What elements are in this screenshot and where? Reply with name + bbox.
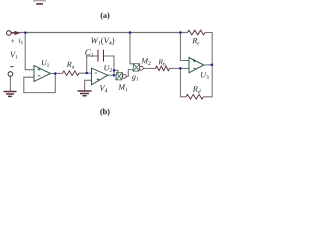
caption (b)	[100, 109, 109, 116]
label M1	[118, 84, 127, 91]
partial ground from figure (a) at top edge	[33, 0, 46, 2]
label U3	[201, 72, 209, 79]
label U1	[42, 60, 49, 67]
wire: M1 top input jog	[114, 70, 118, 72]
wire: lower terminal to ground	[9, 77, 11, 92]
label R_c	[192, 38, 199, 45]
multiplier M2	[133, 64, 140, 71]
label U2	[104, 65, 112, 72]
op-amp U2 (integrator)	[92, 68, 108, 85]
wire: U2 + input to ground	[85, 80, 92, 90]
capacitor C1 plates	[98, 50, 104, 62]
resistor R_b	[156, 66, 170, 71]
wire: R_c right corner down to U3 output node	[205, 33, 212, 65]
wire: top node down to U3 + input	[180, 33, 189, 61]
wire: R_b to node	[170, 67, 181, 69]
resistor R_d	[186, 95, 204, 100]
label g1	[132, 76, 139, 82]
wire: capacitor right lead down to V4 node	[104, 56, 115, 75]
op-amp U3	[189, 58, 204, 73]
label R_b	[158, 60, 165, 66]
node: U3 - input / R_b / R_d	[179, 67, 182, 70]
terminal - (lower left)	[8, 72, 13, 77]
wire: U1 output	[51, 73, 56, 75]
label V4	[100, 85, 108, 92]
resistor R_a	[63, 71, 80, 76]
label - polarity	[10, 66, 14, 68]
node: U2 - input / C1 junction	[85, 72, 88, 75]
resistor R_c	[188, 30, 206, 35]
ground (input, bottom left)	[4, 92, 17, 97]
label C1	[85, 49, 93, 56]
wire: top rail	[11, 32, 187, 34]
op-amp U1 (buffer)	[34, 66, 51, 82]
wire: R_d loop	[180, 65, 212, 97]
multiplier M1	[116, 73, 123, 80]
caption (a)	[101, 12, 110, 19]
node: U2 output V4 / M1 lower input	[113, 74, 116, 77]
label R_d	[193, 86, 201, 93]
label W1(V4)	[91, 37, 114, 45]
wire: M1 bottom input	[114, 74, 116, 76]
label i1	[19, 38, 23, 44]
ground (U2 + input)	[78, 91, 92, 96]
label V1	[10, 52, 17, 59]
wire: input node down to U1 + input	[25, 33, 34, 70]
wire: M1 output up to M2 bottom input	[126, 70, 133, 77]
wire: U2 output	[108, 74, 114, 76]
node: top rail to M2 branch	[129, 31, 132, 34]
wire: U1 output node to R_a to U2 - input	[55, 72, 91, 74]
wire: U1 feedback loop	[24, 74, 56, 93]
terminal + (top left)	[7, 31, 12, 36]
label + polarity	[11, 39, 14, 43]
wire: top node down to M2 top input	[130, 33, 134, 64]
wire: U3 output	[204, 64, 212, 66]
wire: capacitor left lead down to U2 - node	[87, 56, 98, 73]
node: U3 output	[211, 64, 214, 67]
node: V4 to M1 upper input	[113, 69, 116, 72]
node: input terminal / top rail junction	[24, 31, 27, 34]
label R_a	[67, 62, 75, 69]
wire: R_b node to U3 - input	[180, 67, 189, 69]
label M2	[141, 58, 150, 65]
node: top rail to U3 + input / R_c	[179, 31, 182, 34]
wire: M2 output to R_b	[143, 67, 155, 69]
node: U1 output	[54, 72, 57, 75]
current arrow i1	[11, 32, 15, 34]
